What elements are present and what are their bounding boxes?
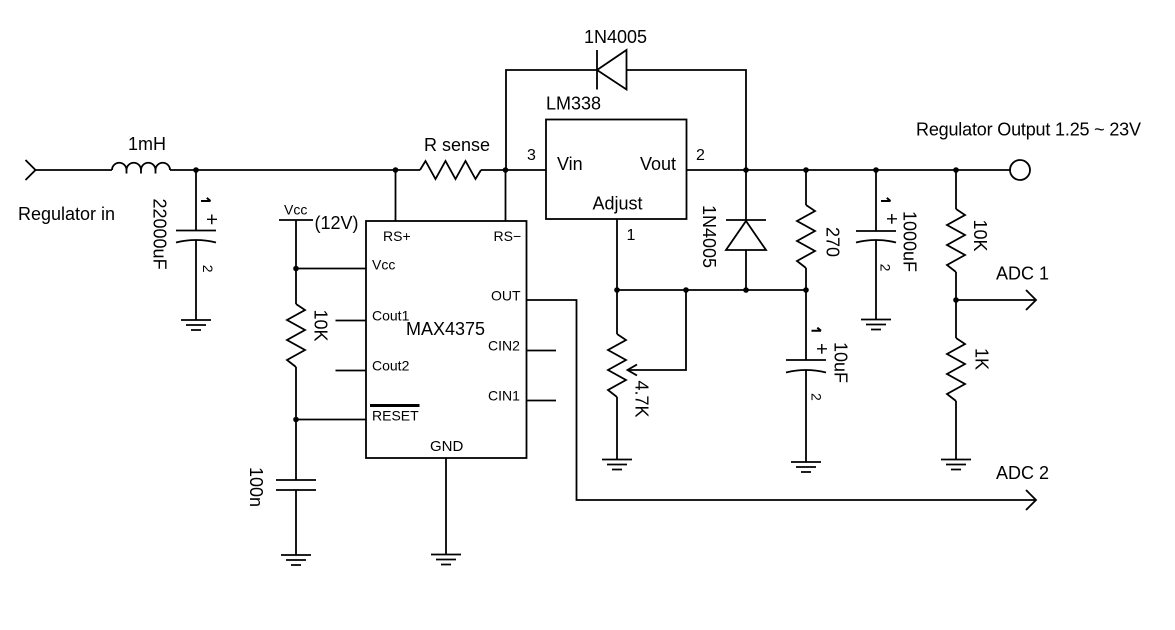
svg-text:1: 1 — [627, 227, 636, 244]
svg-text:22000uF: 22000uF — [150, 199, 170, 270]
svg-text:RS+: RS+ — [383, 228, 411, 244]
svg-text:Vin: Vin — [557, 154, 583, 174]
svg-text:CIN2: CIN2 — [488, 338, 520, 354]
svg-text:1mH: 1mH — [128, 134, 166, 154]
svg-text:3: 3 — [527, 147, 536, 164]
svg-text:Cout2: Cout2 — [372, 358, 410, 374]
svg-text:GND: GND — [430, 438, 464, 455]
svg-text:4.7K: 4.7K — [632, 381, 652, 418]
svg-text:10uF: 10uF — [831, 342, 851, 383]
svg-text:ADC 2: ADC 2 — [996, 463, 1049, 483]
svg-text:+: + — [880, 213, 902, 225]
svg-text:+: + — [810, 343, 832, 355]
svg-text:Cout1: Cout1 — [372, 308, 410, 324]
svg-text:2: 2 — [696, 147, 705, 164]
svg-text:1N4005: 1N4005 — [699, 205, 719, 268]
svg-text:RS−: RS− — [494, 228, 522, 244]
svg-text:LM338: LM338 — [546, 94, 601, 114]
svg-text:Regulator in: Regulator in — [18, 204, 115, 224]
svg-text:MAX4375: MAX4375 — [406, 319, 485, 339]
svg-text:Vcc: Vcc — [372, 257, 395, 273]
svg-text:2: 2 — [200, 265, 216, 273]
svg-text:OUT: OUT — [491, 288, 521, 304]
svg-text:Vcc: Vcc — [284, 202, 307, 218]
svg-text:1K: 1K — [972, 348, 992, 370]
svg-text:1N4005: 1N4005 — [584, 27, 647, 47]
svg-text:R sense: R sense — [424, 135, 490, 155]
svg-text:Adjust: Adjust — [593, 194, 643, 214]
svg-text:Regulator Output 1.25 ~ 23V: Regulator Output 1.25 ~ 23V — [916, 120, 1141, 140]
svg-text:10K: 10K — [970, 220, 990, 252]
svg-text:270: 270 — [823, 227, 843, 257]
svg-text:10K: 10K — [311, 310, 331, 342]
svg-text:CIN1: CIN1 — [488, 388, 520, 404]
svg-text:Vout: Vout — [640, 154, 676, 174]
svg-text:2: 2 — [808, 393, 824, 401]
svg-text:ADC 1: ADC 1 — [996, 264, 1049, 284]
svg-text:RESET: RESET — [372, 408, 419, 424]
svg-text:+: + — [200, 214, 222, 226]
svg-text:(12V): (12V) — [315, 213, 359, 233]
svg-text:2: 2 — [878, 264, 894, 272]
svg-text:100n: 100n — [246, 467, 266, 507]
